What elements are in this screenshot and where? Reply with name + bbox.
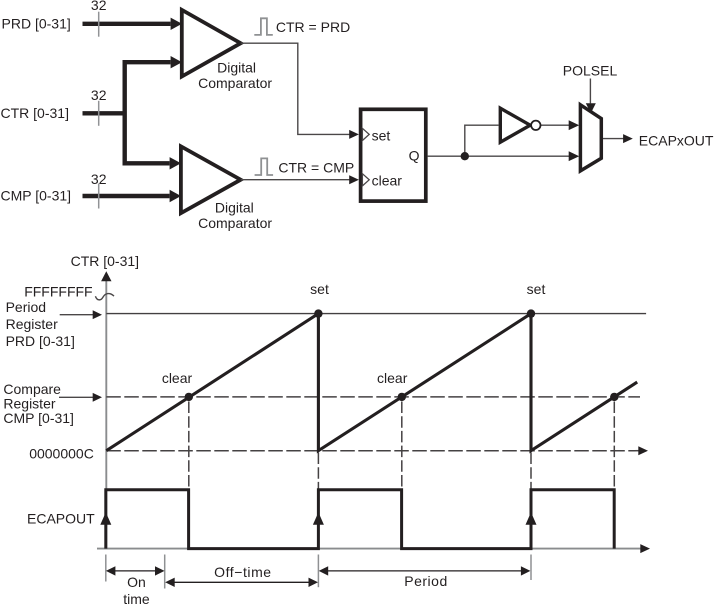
- svg-text:CTR = PRD: CTR = PRD: [276, 19, 350, 35]
- svg-text:set: set: [372, 127, 391, 143]
- svg-text:POLSEL: POLSEL: [563, 62, 618, 78]
- svg-text:Register: Register: [6, 316, 58, 332]
- svg-text:32: 32: [91, 87, 107, 103]
- svg-text:PRD [0-31]: PRD [0-31]: [6, 333, 75, 349]
- svg-text:0000000C: 0000000C: [29, 445, 94, 461]
- svg-text:Digital: Digital: [217, 60, 256, 76]
- svg-text:CTR [0-31]: CTR [0-31]: [1, 105, 69, 121]
- svg-text:ECAPxOUT: ECAPxOUT: [639, 132, 714, 148]
- svg-text:clear: clear: [377, 370, 408, 386]
- svg-text:Period: Period: [404, 573, 447, 589]
- svg-text:On: On: [127, 574, 146, 590]
- svg-text:Digital: Digital: [215, 200, 254, 216]
- svg-text:clear: clear: [162, 370, 193, 386]
- svg-text:time: time: [123, 591, 150, 604]
- svg-text:Comparator: Comparator: [198, 215, 272, 231]
- svg-text:CTR = CMP: CTR = CMP: [278, 160, 354, 176]
- svg-text:clear: clear: [372, 172, 403, 188]
- svg-text:Q: Q: [409, 148, 420, 164]
- svg-text:PRD [0-31]: PRD [0-31]: [2, 16, 71, 32]
- svg-text:FFFFFFFF: FFFFFFFF: [24, 283, 92, 299]
- svg-text:CMP [0-31]: CMP [0-31]: [1, 188, 72, 204]
- svg-text:CTR [0-31]: CTR [0-31]: [71, 253, 139, 269]
- svg-text:Comparator: Comparator: [198, 75, 272, 91]
- svg-text:32: 32: [91, 171, 107, 187]
- svg-text:Off−time: Off−time: [214, 564, 271, 580]
- svg-text:set: set: [527, 281, 546, 297]
- svg-text:ECAPOUT: ECAPOUT: [27, 511, 95, 527]
- svg-text:32: 32: [91, 0, 107, 13]
- svg-text:Period: Period: [6, 299, 46, 315]
- svg-text:set: set: [310, 281, 329, 297]
- svg-text:CMP [0-31]: CMP [0-31]: [3, 410, 74, 426]
